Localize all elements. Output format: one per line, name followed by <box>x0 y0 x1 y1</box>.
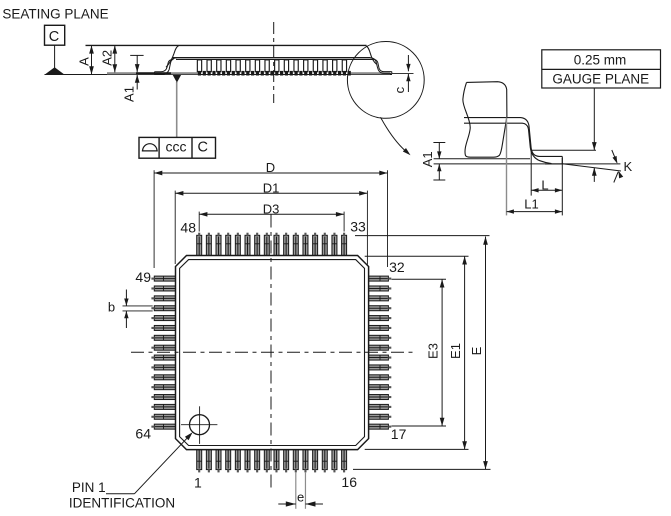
pin 53 (left row) <box>154 316 175 321</box>
side view right lead outer contour <box>370 58 392 74</box>
detail dim A1 top tick <box>433 142 445 144</box>
datum triangle <box>45 67 64 74</box>
dim D1 ext left <box>174 191 176 264</box>
horizontal centerline <box>131 351 413 353</box>
detail leader arrowhead <box>403 148 412 157</box>
dim A arrow bottom <box>89 66 94 74</box>
side view left lead tip edge <box>154 72 156 75</box>
dim L line <box>531 189 562 191</box>
detail underside line <box>434 158 530 160</box>
dim L arrow left <box>531 188 538 192</box>
pin 1 (bottom row) <box>197 450 202 470</box>
pin 39 (top row) <box>284 235 289 256</box>
dim b ext bottom <box>123 310 153 312</box>
dim A1 lower arrow <box>135 75 140 83</box>
svg-text:A1: A1 <box>122 86 137 102</box>
pin 24 (right row) <box>368 355 388 360</box>
svg-text:A2: A2 <box>100 50 115 66</box>
dim b upper line <box>125 290 127 306</box>
side view right lead tip edge <box>391 72 393 74</box>
pin 21 (right row) <box>368 385 388 390</box>
dim E1 arrow top <box>462 256 467 264</box>
dim E arrow bottom <box>483 461 488 469</box>
dim E3 ext top <box>392 278 447 280</box>
side view body right edge curve <box>366 46 377 64</box>
dim D3 arrow left <box>199 212 207 217</box>
detail seating line <box>434 163 621 165</box>
pin 44 (top row) <box>235 235 240 256</box>
svg-text:17: 17 <box>391 426 407 442</box>
dim E3 arrow top <box>440 279 445 287</box>
svg-text:A1: A1 <box>420 151 435 167</box>
dim e line right <box>305 503 323 505</box>
pin 46 (top row) <box>216 235 221 256</box>
svg-text:C: C <box>198 140 208 156</box>
dim b lower line <box>125 311 127 328</box>
svg-text:E3: E3 <box>426 343 441 359</box>
side view seating plane thick gray band right <box>348 72 390 74</box>
dim D1 line <box>175 192 367 194</box>
tolerance frame divider 2 <box>191 137 193 158</box>
pin 29 (right row) <box>368 306 388 311</box>
package body outline <box>176 256 369 450</box>
pin 34 (top row) <box>332 235 337 256</box>
detail body section <box>463 82 507 158</box>
svg-text:E: E <box>469 346 484 355</box>
svg-text:33: 33 <box>350 219 366 235</box>
dim D3 ext right <box>343 212 345 232</box>
pin 1 leader diagonal <box>135 434 191 493</box>
pin 36 (top row) <box>313 235 318 256</box>
pin 22 (right row) <box>368 375 388 380</box>
svg-text:E1: E1 <box>448 343 463 359</box>
side view seating plane thick gray band left <box>107 72 198 74</box>
pin 31 (right row) <box>368 286 388 291</box>
pin 40 (top row) <box>274 235 279 256</box>
dim A1 upper line <box>136 55 138 72</box>
detail dim A1 lower arrow <box>437 164 441 171</box>
detail lead foot tip edge <box>561 156 563 163</box>
svg-text:c: c <box>392 86 407 93</box>
dim A1 upper arrow <box>135 64 140 72</box>
pin 52 (left row) <box>154 306 175 311</box>
pin 25 (right row) <box>368 345 388 350</box>
pin 42 (top row) <box>255 235 260 256</box>
dim K upper line <box>612 150 617 163</box>
dim A1 lower line <box>136 75 138 90</box>
pin 7 (bottom row) <box>255 450 260 470</box>
svg-text:49: 49 <box>135 269 151 285</box>
pin 55 (left row) <box>154 335 175 340</box>
dim b lower arrow <box>124 311 128 318</box>
dim e ext right <box>304 472 306 509</box>
dim L1 arrow right <box>555 209 562 213</box>
dim L1 line <box>507 211 563 213</box>
tolerance frame arrow <box>173 75 182 83</box>
flatness symbol <box>142 144 158 151</box>
pin 1 circle crosshair vertical <box>199 406 201 444</box>
dim L1 left ext <box>506 118 508 216</box>
dim A arrow top <box>89 45 94 53</box>
pin 28 (right row) <box>368 316 388 321</box>
side view right lead top contour <box>374 59 392 71</box>
dim E1 arrow bottom <box>462 441 467 449</box>
svg-text:L1: L1 <box>524 196 538 211</box>
pin 33 (top row) <box>342 235 347 256</box>
svg-text:b: b <box>108 299 115 314</box>
detail lead upper contour <box>464 118 562 157</box>
pin 6 (bottom row) <box>245 450 250 470</box>
svg-text:32: 32 <box>389 259 405 275</box>
dim E line <box>485 237 487 470</box>
pin 8 (bottom row) <box>264 450 269 470</box>
pin 1 leader arrowhead <box>185 430 195 440</box>
side view left lead top contour <box>155 59 174 71</box>
gauge leader arrow <box>592 142 597 150</box>
pin 14 (bottom row) <box>322 450 327 470</box>
side view body top line <box>86 44 367 46</box>
pin 49 (left row) <box>154 276 175 281</box>
pin 41 (top row) <box>264 235 269 256</box>
svg-text:64: 64 <box>135 426 151 442</box>
detail foot slope line K <box>562 164 621 171</box>
pin 37 (top row) <box>303 235 308 256</box>
pin 32 (right row) <box>368 276 388 281</box>
gauge plane box divider <box>542 68 661 70</box>
side view seating plane line <box>45 74 393 76</box>
pin 43 (top row) <box>245 235 250 256</box>
pin 27 (right row) <box>368 325 388 330</box>
pin 56 (left row) <box>154 345 175 350</box>
dim c lower line <box>407 74 409 92</box>
detail dim A1 bottom tick <box>433 179 445 181</box>
dim D ext left <box>153 170 155 268</box>
dim E3 arrow bottom <box>440 418 445 426</box>
side view package bottom dark segment <box>136 72 171 74</box>
pin 5 (bottom row) <box>235 450 240 470</box>
dim D1 ext right <box>366 191 368 265</box>
tolerance frame leader <box>176 82 178 137</box>
svg-text:IDENTIFICATION: IDENTIFICATION <box>69 496 175 511</box>
svg-text:16: 16 <box>341 474 357 490</box>
pin 54 (left row) <box>154 325 175 330</box>
svg-text:C: C <box>49 29 59 45</box>
pin 16 (bottom row) <box>342 450 347 470</box>
svg-text:PIN 1: PIN 1 <box>72 480 106 495</box>
svg-text:D1: D1 <box>263 181 280 196</box>
pin 4 (bottom row) <box>226 450 231 470</box>
detail lead foot bottom <box>545 163 562 165</box>
side view lead shoulder lower line <box>176 58 374 60</box>
side view lead shoulder upper line <box>172 57 371 59</box>
dim A2 arrow top <box>112 45 117 53</box>
dim E3 line <box>441 279 443 426</box>
dim D3 arrow right <box>336 212 344 217</box>
pin 20 (right row) <box>368 395 388 400</box>
svg-text:e: e <box>297 490 304 505</box>
pin 62 (left row) <box>154 404 175 409</box>
vertical centerline <box>270 215 272 490</box>
dim D line <box>154 172 387 174</box>
dim K lower line <box>614 172 618 183</box>
dim A2 line <box>114 45 116 72</box>
side view vertical centerline <box>273 22 275 103</box>
svg-text:SEATING PLANE: SEATING PLANE <box>2 6 108 21</box>
pin 10 (bottom row) <box>284 450 289 470</box>
pin 50 (left row) <box>154 286 175 291</box>
dim D ext right <box>387 170 389 267</box>
datum leader line <box>54 45 56 69</box>
package body top surface <box>180 260 365 446</box>
pin 1 circle crosshair horizontal <box>181 424 217 426</box>
pin 15 (bottom row) <box>332 450 337 470</box>
dim c upper line <box>407 55 409 71</box>
dim c ext line <box>392 73 414 75</box>
pin 47 (top row) <box>206 235 211 256</box>
dim D3 ext left <box>198 212 200 232</box>
dim e arrow left <box>286 501 296 506</box>
svg-text:A: A <box>76 57 91 66</box>
pin 59 (left row) <box>154 375 175 380</box>
dim K upper arrow <box>612 156 619 165</box>
detail circle <box>347 42 424 119</box>
dim E arrow top <box>483 237 488 245</box>
pin 9 (bottom row) <box>274 450 279 470</box>
dim L1 right ext <box>561 158 563 215</box>
detail lead lower contour <box>464 123 552 163</box>
dim E1 ext top <box>365 255 469 257</box>
dim K lower arrow <box>616 170 623 179</box>
pin 1 leader underline <box>106 493 135 495</box>
pin 63 (left row) <box>154 414 175 419</box>
side view left lead outer contour <box>155 58 177 74</box>
gauge plane line <box>531 149 596 151</box>
svg-text:ccc: ccc <box>166 139 187 155</box>
pin 17 (right row) <box>368 424 388 429</box>
dim D arrow left <box>154 171 162 176</box>
pin 23 (right row) <box>368 365 388 370</box>
dim e line left <box>278 503 296 505</box>
detail dim A1 upper arrow <box>437 151 441 158</box>
dim E1 line <box>464 256 466 449</box>
dim L left ext <box>530 150 532 195</box>
pin 35 (top row) <box>322 235 327 256</box>
pin 30 (right row) <box>368 296 388 301</box>
pin 19 (right row) <box>368 404 388 409</box>
dim e arrow right <box>305 501 315 506</box>
pin 1 identification circle <box>190 415 210 435</box>
dim D1 arrow right <box>359 191 367 196</box>
pin 3 (bottom row) <box>216 450 221 470</box>
dim A1 top tick <box>130 54 143 56</box>
dim D1 arrow left <box>175 191 183 196</box>
gauge leader line <box>593 88 595 150</box>
svg-text:0.25 mm: 0.25 mm <box>574 52 627 67</box>
pin 51 (left row) <box>154 296 175 301</box>
svg-text:K: K <box>623 159 632 174</box>
svg-text:L: L <box>541 178 548 193</box>
dim D arrow right <box>379 171 387 176</box>
dim D3 line <box>199 213 344 215</box>
detail leader curve <box>381 117 409 153</box>
pin 11 (bottom row) <box>293 450 298 470</box>
gauge up arrow line <box>593 168 595 182</box>
dim L arrow right <box>555 188 562 192</box>
pin 60 (left row) <box>154 385 175 390</box>
pin 13 (bottom row) <box>313 450 318 470</box>
tolerance frame divider 1 <box>158 137 160 158</box>
svg-text:48: 48 <box>180 219 196 235</box>
dim b ext top <box>123 305 153 307</box>
dim e ext left <box>295 472 297 509</box>
dim E3 ext bottom <box>392 425 447 427</box>
datum C box <box>45 25 65 45</box>
pin 48 (top row) <box>197 235 202 256</box>
pin 12 (bottom row) <box>303 450 308 470</box>
pin 61 (left row) <box>154 395 175 400</box>
dim E ext top <box>355 235 490 237</box>
pin 26 (right row) <box>368 335 388 340</box>
dim c upper arrow <box>406 64 410 71</box>
pin 45 (top row) <box>226 235 231 256</box>
dim b upper arrow <box>124 299 128 306</box>
svg-text:D: D <box>266 160 275 175</box>
svg-text:D3: D3 <box>263 202 280 217</box>
pin 58 (left row) <box>154 365 175 370</box>
side view body left edge curve <box>166 46 179 67</box>
pin 38 (top row) <box>293 235 298 256</box>
detail dim A1 upper line <box>438 143 440 159</box>
dim c lower arrow <box>406 74 410 81</box>
detail dim A1 lower line <box>438 164 440 180</box>
dim A line <box>91 45 93 74</box>
pin 64 (left row) <box>154 424 175 429</box>
pin 18 (right row) <box>368 414 388 419</box>
svg-text:GAUGE PLANE: GAUGE PLANE <box>552 71 649 86</box>
dim E1 ext bottom <box>365 448 469 450</box>
pin 2 (bottom row) <box>206 450 211 470</box>
dim L1 arrow left <box>507 209 514 213</box>
gauge up arrow <box>592 168 597 176</box>
dim E ext bottom <box>353 468 491 470</box>
pin 57 (left row) <box>154 355 175 360</box>
side view leads comb <box>197 60 346 72</box>
svg-text:1: 1 <box>194 475 202 491</box>
tolerance frame box <box>139 137 216 158</box>
dim A2 arrow bottom <box>112 64 117 72</box>
gauge plane box <box>542 50 661 88</box>
